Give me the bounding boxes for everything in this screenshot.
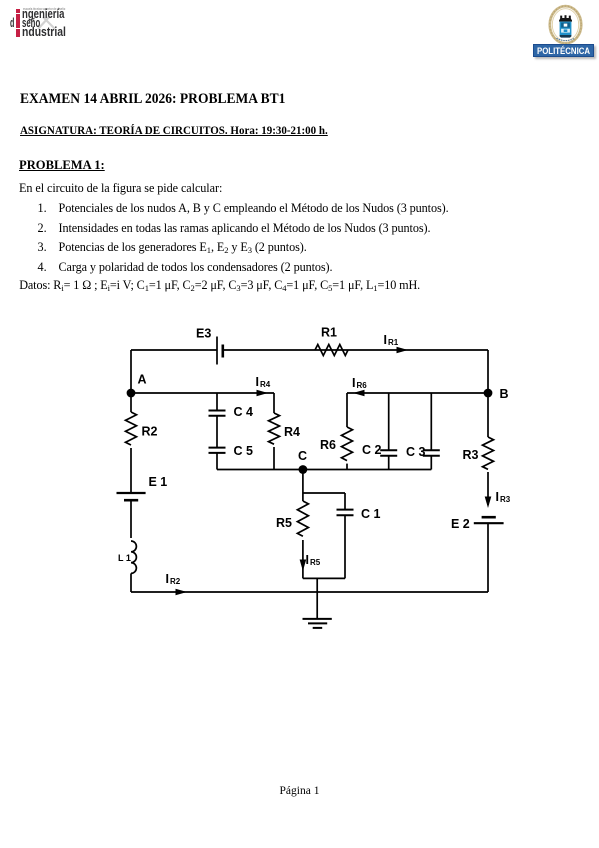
svg-text:R5: R5 (276, 516, 292, 530)
svg-text:R5: R5 (310, 558, 321, 567)
svg-text:I: I (306, 553, 309, 567)
svg-text:R2: R2 (170, 577, 181, 586)
svg-text:C 2: C 2 (362, 443, 382, 457)
svg-text:R6: R6 (357, 381, 368, 390)
svg-text:C 1: C 1 (361, 507, 381, 521)
svg-text:I: I (352, 376, 355, 390)
svg-text:C: C (298, 449, 307, 463)
svg-text:R1: R1 (321, 326, 337, 340)
svg-text:R3: R3 (463, 448, 479, 462)
svg-text:E 2: E 2 (451, 517, 470, 531)
svg-text:R3: R3 (500, 495, 511, 504)
svg-text:R4: R4 (260, 380, 271, 389)
svg-text:C 3: C 3 (406, 445, 426, 459)
svg-text:A: A (138, 373, 147, 387)
svg-text:I: I (496, 490, 499, 504)
svg-text:C 4: C 4 (234, 405, 254, 419)
svg-text:B: B (500, 387, 509, 401)
svg-text:R4: R4 (284, 425, 300, 439)
svg-text:I: I (166, 572, 169, 586)
svg-text:L 1: L 1 (118, 553, 131, 563)
svg-text:E 1: E 1 (149, 475, 168, 489)
svg-text:E3: E3 (196, 327, 211, 341)
svg-text:R2: R2 (142, 425, 158, 439)
svg-text:I: I (384, 333, 387, 347)
svg-text:C 5: C 5 (234, 444, 254, 458)
svg-text:R1: R1 (388, 338, 399, 347)
svg-text:R6: R6 (320, 438, 336, 452)
svg-text:I: I (256, 375, 259, 389)
